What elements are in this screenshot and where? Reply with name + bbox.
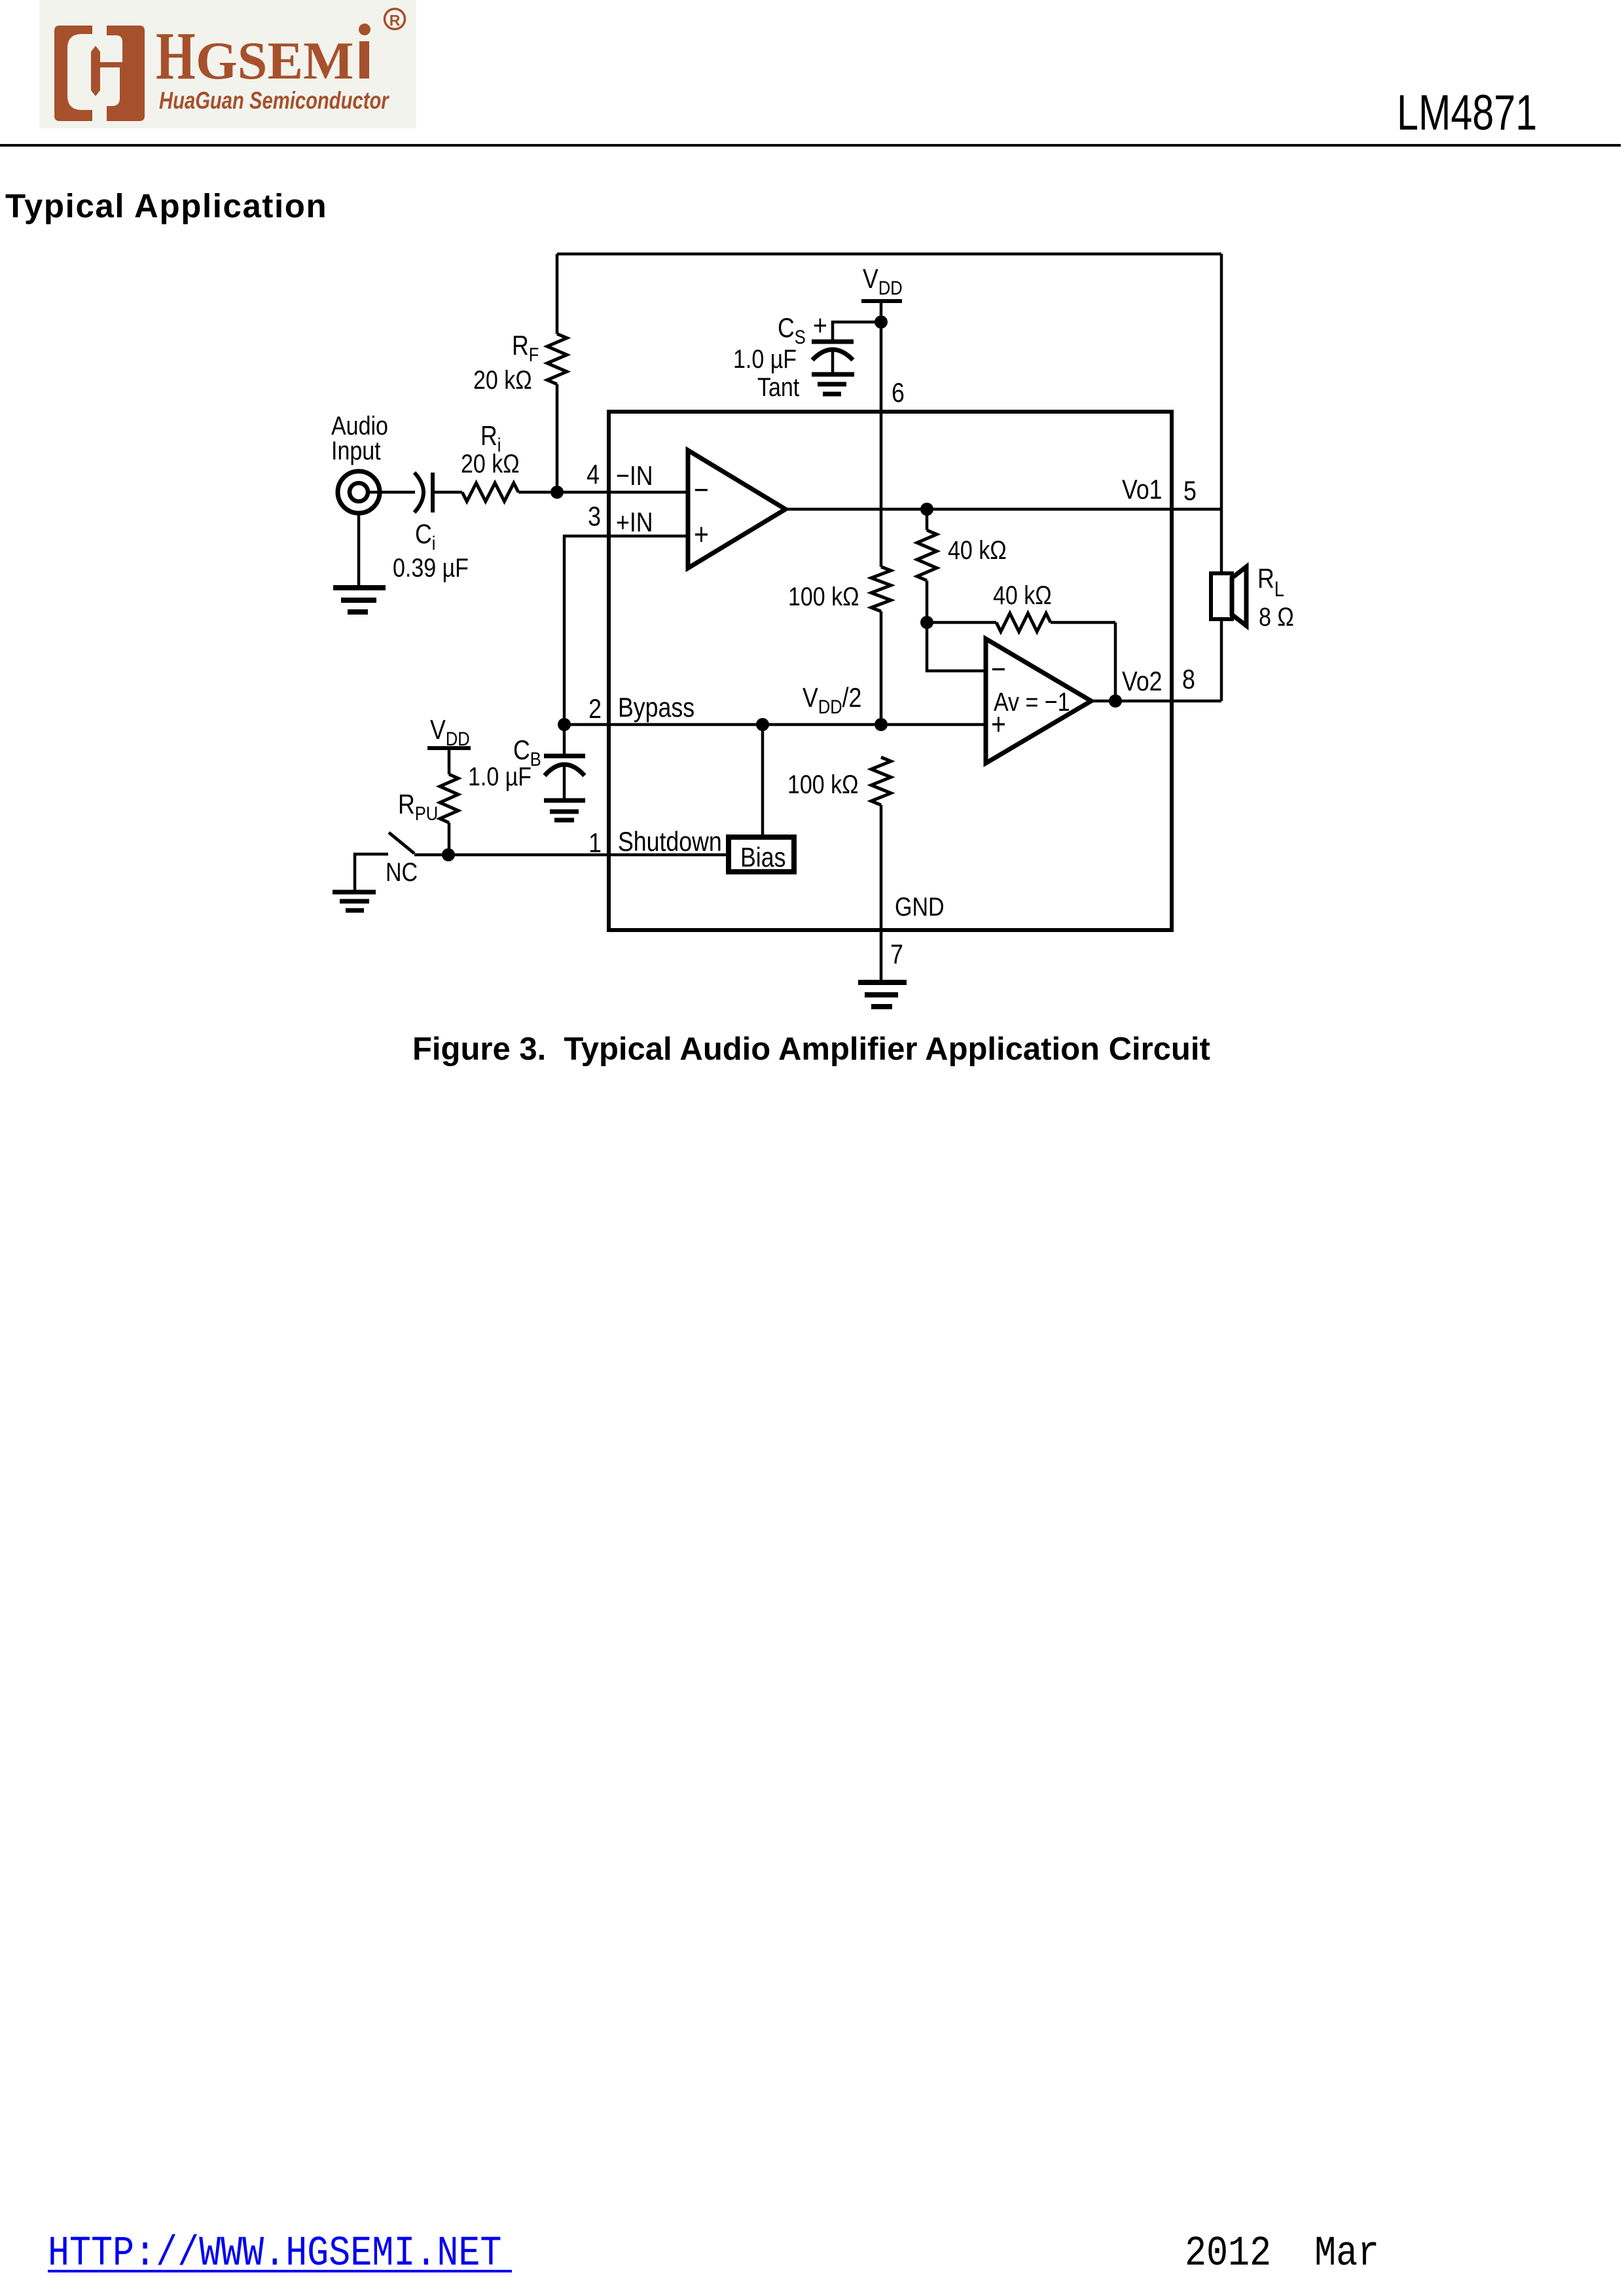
svg-text:2: 2 [588, 694, 602, 724]
header rule [0, 144, 1621, 147]
node Vo1 internal dot [920, 503, 933, 516]
svg-text:5: 5 [1183, 476, 1197, 506]
svg-text:40 kΩ: 40 kΩ [948, 535, 1007, 564]
capacitor CB 1.0uF [544, 725, 585, 800]
wire shutdown to pin 1 and Bias [448, 853, 729, 857]
svg-text:100 kΩ: 100 kΩ [787, 769, 859, 798]
node B junction dot [920, 616, 933, 629]
speaker RL 8ohm [1211, 509, 1246, 701]
svg-text:3: 3 [588, 501, 601, 531]
svg-text:GSEM: GSEM [196, 31, 353, 90]
audio input jack J1 [338, 471, 380, 513]
svg-text:H: H [156, 18, 196, 93]
svg-text:VDD/2: VDD/2 [803, 683, 861, 717]
svg-text:Input: Input [331, 435, 381, 465]
svg-text:6: 6 [892, 378, 905, 408]
ground (CS) [812, 374, 854, 394]
wire bypass line [564, 723, 986, 726]
wire A1 output to Vo1 node [787, 508, 927, 511]
node Vo2 junction dot [1109, 694, 1122, 708]
VDD supply symbol [861, 264, 903, 322]
wire Ri to node A [518, 491, 557, 494]
svg-text:VDD: VDD [430, 715, 470, 749]
svg-text:LM4871: LM4871 [1397, 85, 1537, 141]
wire 40k to Vo2 node [1114, 622, 1117, 701]
svg-text:CS: CS [778, 313, 806, 348]
svg-text:Bypass: Bypass [618, 692, 695, 723]
svg-text:Ci: Ci [415, 519, 435, 554]
svg-text:RF: RF [512, 331, 539, 365]
svg-text:+: + [813, 309, 827, 342]
wire node B to A2 inverting input [927, 622, 986, 671]
logo wordmark HGSEMI [156, 18, 370, 93]
wire rail to VDD/2 node [880, 611, 883, 725]
svg-text:100 kΩ: 100 kΩ [788, 581, 859, 611]
capacitor Ci 0.39uF [414, 473, 433, 512]
svg-text:40 kΩ: 40 kΩ [993, 580, 1052, 609]
logo background panel [39, 0, 416, 128]
footer link underline [48, 2270, 512, 2272]
svg-text:8: 8 [1182, 664, 1195, 694]
resistor 40k vertical [917, 509, 937, 622]
svg-text:1.0 µF: 1.0 µF [468, 761, 532, 791]
svg-text:Figure 3. Typical Audio Ampli: Figure 3. Typical Audio Amplifier Applic… [412, 1031, 1210, 1067]
svg-text:NC: NC [386, 857, 418, 886]
wire node A to -IN pin 4 [557, 491, 688, 494]
svg-text:20 kΩ: 20 kΩ [473, 365, 532, 394]
svg-text:2012 Mar: 2012 Mar [1185, 2229, 1379, 2277]
VDD supply (RPU) [427, 715, 471, 774]
capacitor CS 1.0uF Tant [812, 342, 854, 374]
wire jack to ground [357, 512, 361, 588]
svg-text:−IN: −IN [616, 461, 653, 491]
svg-text:VDD: VDD [863, 264, 903, 298]
switch lever (open) [389, 833, 448, 855]
svg-text:Typical Application: Typical Application [5, 187, 327, 224]
svg-text:Vo2: Vo2 [1122, 666, 1163, 696]
wire feedback down to Vo1 [1220, 254, 1223, 509]
svg-text:0.39 µF: 0.39 µF [393, 552, 469, 582]
node shutdown junction dot [442, 848, 455, 861]
resistor 100k lower [871, 757, 891, 805]
ground (NC) [333, 892, 376, 910]
svg-text:+: + [694, 518, 709, 552]
svg-text:−: − [694, 473, 709, 507]
resistor 40k feedback horizontal [927, 613, 1115, 632]
ground (CB) [544, 800, 585, 820]
logo icon [54, 26, 145, 121]
svg-text:20 kΩ: 20 kΩ [461, 448, 520, 478]
svg-text:4: 4 [586, 459, 600, 490]
svg-text:RL: RL [1257, 564, 1284, 601]
wire RPU to shutdown node [448, 823, 451, 855]
wire CS to VDD node [833, 322, 881, 342]
wire +IN pin 3 [564, 536, 688, 725]
node A junction dot [550, 486, 564, 499]
node VDD/2 junction dot [875, 718, 888, 731]
IC package box U1 [609, 412, 1172, 930]
svg-text:8 Ω: 8 Ω [1259, 601, 1294, 631]
Bias block [729, 837, 794, 872]
svg-text:+IN: +IN [616, 507, 653, 537]
resistor 100k upper [871, 567, 891, 611]
svg-text:RPU: RPU [398, 789, 438, 824]
wire rail to GND pin 7 [880, 805, 883, 982]
svg-text:Vo1: Vo1 [1122, 475, 1163, 505]
node VDD junction dot [875, 315, 888, 329]
op-amp A2 Av=-1 [986, 639, 1091, 763]
wire jack to Ci [367, 491, 415, 494]
wire A2 output [1091, 700, 1115, 703]
svg-text:Tant: Tant [757, 372, 800, 401]
svg-text:HuaGuan Semiconductor: HuaGuan Semiconductor [159, 88, 389, 115]
wire Bias to bypass node [761, 725, 765, 837]
node Bias stem dot [756, 718, 769, 731]
svg-text:Bias: Bias [740, 842, 785, 872]
node bypass dot [558, 718, 571, 731]
svg-text:Shutdown: Shutdown [618, 827, 722, 857]
wire feedback top rail [557, 253, 1221, 256]
wire Vo2 to pin 8 [1115, 700, 1221, 703]
resistor RF 20k feedback [547, 254, 567, 492]
svg-text:R: R [389, 12, 401, 29]
svg-text:GND: GND [895, 891, 945, 921]
svg-text:1.0 µF: 1.0 µF [733, 344, 797, 373]
svg-text:1: 1 [588, 828, 602, 858]
resistor RPU [440, 774, 458, 823]
resistor Ri 20k [462, 483, 518, 501]
svg-text:+: + [991, 708, 1006, 742]
logo registered trademark [385, 9, 405, 29]
NC contact stub [355, 854, 388, 891]
wire to Vo1 pin 5 [927, 508, 1221, 511]
op-amp A1 [688, 450, 785, 568]
wire VDD rail into pin 6 [880, 322, 883, 567]
wire Ci to Ri [433, 491, 462, 494]
svg-text:−: − [991, 653, 1006, 687]
ground (GND pin) [858, 982, 907, 1007]
svg-text:7: 7 [890, 939, 903, 969]
ground (audio input) [333, 588, 386, 612]
